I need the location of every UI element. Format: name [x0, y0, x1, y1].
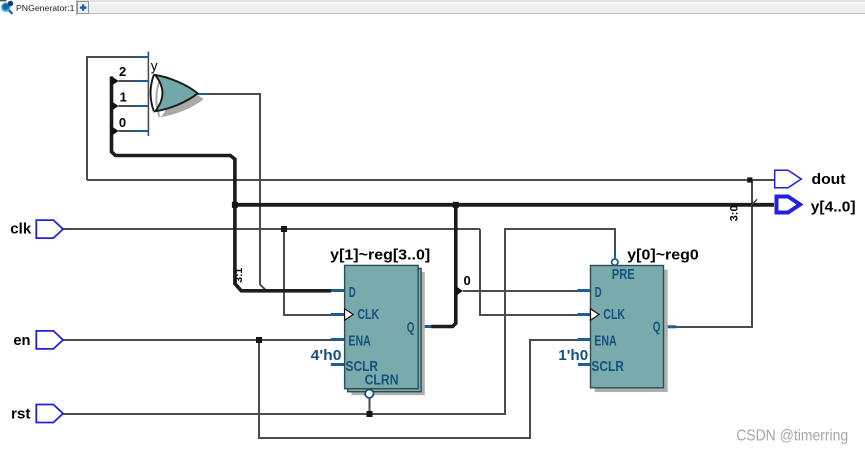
svg-text:rst: rst: [11, 405, 31, 422]
svg-text:en: en: [13, 332, 30, 349]
svg-text:Q: Q: [407, 319, 415, 336]
svg-text:0: 0: [464, 273, 471, 288]
svg-text:4'h0: 4'h0: [311, 347, 342, 364]
svg-text:clk: clk: [10, 221, 32, 238]
svg-text:y[4..0]: y[4..0]: [811, 199, 856, 216]
svg-text:y: y: [151, 58, 158, 74]
svg-text:D: D: [349, 284, 356, 301]
svg-text:CLRN: CLRN: [365, 371, 399, 388]
svg-text:3:0: 3:0: [728, 205, 740, 221]
svg-text:y[0]~reg0: y[0]~reg0: [627, 246, 699, 263]
svg-text:PRE: PRE: [612, 266, 635, 283]
svg-text:3:1: 3:1: [233, 268, 245, 283]
svg-text:CLK: CLK: [357, 306, 379, 323]
svg-text:Q: Q: [653, 319, 661, 336]
svg-text:dout: dout: [812, 171, 846, 188]
svg-text:0: 0: [119, 115, 126, 130]
svg-text:D: D: [595, 284, 602, 301]
svg-text:SCLR: SCLR: [591, 358, 624, 375]
svg-text:y[1]~reg[3..0]: y[1]~reg[3..0]: [330, 246, 430, 263]
svg-text:1'h0: 1'h0: [558, 347, 588, 364]
svg-text:ENA: ENA: [594, 333, 616, 350]
svg-text:1: 1: [120, 90, 127, 105]
svg-text:ENA: ENA: [348, 333, 370, 350]
svg-text:CLK: CLK: [603, 306, 625, 323]
svg-text:CSDN @timerring: CSDN @timerring: [736, 427, 848, 444]
svg-text:2: 2: [119, 64, 126, 79]
